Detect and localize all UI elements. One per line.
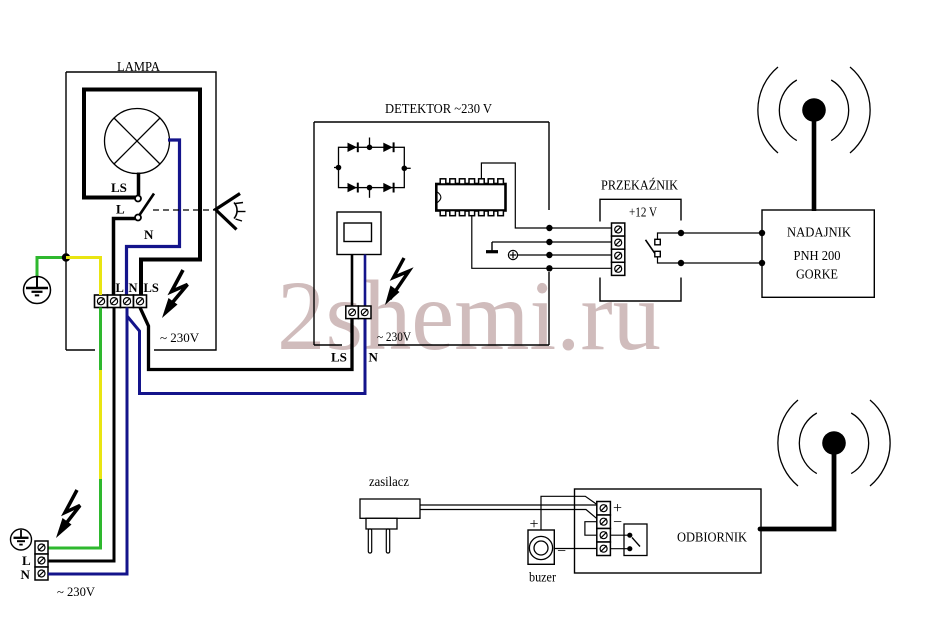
plug body (zasilacz): [360, 499, 420, 518]
svg-text:LS: LS: [111, 180, 127, 195]
wire PE riser green segment: [99, 308, 102, 371]
supply plus symbol: [508, 250, 517, 259]
buzzer plus wire: [541, 496, 597, 530]
wire IC bottom pin to relay line4: [472, 216, 612, 269]
wire t4 to switch: [610, 548, 629, 550]
svg-text:~ 230V: ~ 230V: [160, 330, 200, 345]
wire PIR blue: [364, 255, 367, 307]
wire t3 to switch: [610, 534, 629, 536]
svg-text:~ 230V: ~ 230V: [377, 329, 412, 344]
bridge rectifier: [334, 138, 411, 198]
svg-text:N: N: [369, 350, 379, 365]
IC notch: [436, 191, 441, 203]
svg-text:+12 V: +12 V: [629, 206, 657, 221]
diode D4: [383, 183, 393, 192]
node dots relay edge: [678, 230, 684, 236]
svg-text:−: −: [557, 543, 566, 560]
IC pins top: [440, 179, 503, 184]
switch contacts (receiver): [627, 533, 632, 538]
wire lamp to switch contact: [137, 173, 141, 196]
wire outlet N blue: [48, 573, 127, 576]
terminal block X1 (4x): [95, 295, 147, 308]
svg-text:N: N: [129, 281, 138, 295]
wire ground to relay line2: [492, 241, 612, 243]
svg-text:LAMPA: LAMPA: [117, 60, 161, 75]
relay contact lever: [646, 240, 655, 254]
buzzer body: [528, 530, 554, 564]
node dots transmitter edge: [759, 230, 765, 236]
radio waves (transmitter): [758, 67, 870, 153]
svg-text:L: L: [116, 281, 124, 295]
dashed sight line: [153, 209, 214, 211]
wire LS thick loop: [84, 90, 200, 296]
antenna head (receiver): [822, 431, 846, 455]
wire N riser blue to outlet: [48, 308, 127, 575]
lamp E1: [105, 109, 170, 174]
svg-text:NADAJNIK: NADAJNIK: [787, 226, 851, 241]
wire contact NO to transmitter: [658, 233, 763, 239]
enclosure ODBIORNIK box: [575, 489, 762, 573]
svg-text:zasilacz: zasilacz: [369, 475, 409, 490]
photo sensor eye: [216, 194, 246, 230]
plug prong 2: [386, 529, 389, 553]
antenna mast (transmitter): [812, 114, 817, 211]
node dot line4: [546, 265, 552, 271]
buzzer rings: [529, 536, 552, 559]
lightning arrow (detector): [385, 258, 409, 305]
svg-text:LS: LS: [144, 281, 159, 295]
wire N branch blue to detector: [127, 316, 365, 394]
PIR sensor module: [337, 212, 381, 255]
ground PE symbol (circle): [24, 277, 51, 304]
enclosure NADAJNIK box: [762, 210, 874, 297]
antenna head (transmitter): [802, 98, 826, 122]
terminal block outlet (3x): [35, 541, 48, 580]
node dot antenna-box junction: [758, 527, 763, 532]
svg-text:GORKE: GORKE: [796, 268, 838, 283]
wire IC top pin to relay line1: [481, 163, 611, 228]
buzzer minus wire: [554, 548, 597, 550]
svg-text:buzer: buzer: [529, 571, 556, 586]
node dot line2: [546, 239, 552, 245]
jumper wire t2-t3: [585, 522, 597, 536]
IC U1 DIP14 body: [436, 184, 505, 211]
IC pins bottom: [440, 211, 503, 216]
wire PE riser yellow segment: [99, 370, 102, 479]
bridge node dots: [367, 145, 373, 151]
wire PE green (ground to junction): [37, 258, 66, 277]
enclosure DETEKTOR box: [314, 122, 549, 345]
svg-text:L: L: [116, 202, 125, 217]
plug base: [366, 518, 397, 529]
switch box (receiver): [624, 524, 647, 556]
lightning arrow (mains warning upper): [162, 270, 188, 318]
node dot line1: [546, 225, 552, 231]
wire PIR black: [351, 255, 354, 307]
terminal block detector (2x): [346, 306, 371, 319]
diode D2: [383, 143, 393, 152]
relay contact K1: [655, 239, 661, 256]
svg-text:PRZEKAŹNIK: PRZEKAŹNIK: [601, 177, 678, 194]
switch S1 contacts: [135, 196, 141, 202]
antenna mast (receiver): [761, 453, 834, 529]
switch S1 lever: [140, 194, 155, 216]
svg-text:N: N: [144, 227, 154, 242]
diode D3: [348, 183, 358, 192]
ground symbol (outlet): [11, 529, 32, 550]
junction dot PE: [62, 253, 70, 261]
wire PE yellow (junction to terminal): [66, 258, 101, 296]
plug prong 1: [368, 529, 371, 553]
svg-text:N: N: [21, 567, 31, 582]
cable line top: [420, 504, 597, 506]
wire contact COM to transmitter: [658, 257, 763, 263]
svg-text:ODBIORNIK: ODBIORNIK: [677, 531, 747, 546]
cable line bottom: [420, 510, 597, 519]
wire PE riser green to outlet: [48, 479, 101, 548]
terminal block receiver (4x): [597, 502, 611, 556]
ground symbol (detector internal): [486, 242, 498, 252]
wire supply to relay line3: [518, 254, 612, 256]
svg-text:LS: LS: [331, 350, 347, 365]
enclosure LAMPA box: [66, 72, 216, 350]
wire L riser black to outlet: [48, 308, 114, 562]
diode D1: [348, 143, 358, 152]
wire L switch to terminal: [114, 219, 136, 296]
wire LS branch black to detector: [140, 308, 352, 370]
wire N blue lamp to terminal: [127, 140, 180, 295]
lightning arrow (outlet): [56, 490, 80, 538]
svg-text:−: −: [613, 514, 622, 531]
svg-text:~ 230V: ~ 230V: [57, 584, 96, 599]
wire outlet L black: [48, 560, 114, 563]
radio waves (receiver): [778, 400, 890, 486]
terminal block relay (4x): [612, 223, 625, 275]
svg-text:DETEKTOR ~230 V: DETEKTOR ~230 V: [385, 102, 492, 117]
enclosure relay box: [600, 199, 681, 301]
svg-text:L: L: [22, 553, 31, 568]
svg-text:PNH 200: PNH 200: [794, 249, 841, 264]
switch lever (receiver): [632, 538, 640, 547]
node dot line3: [546, 252, 552, 258]
